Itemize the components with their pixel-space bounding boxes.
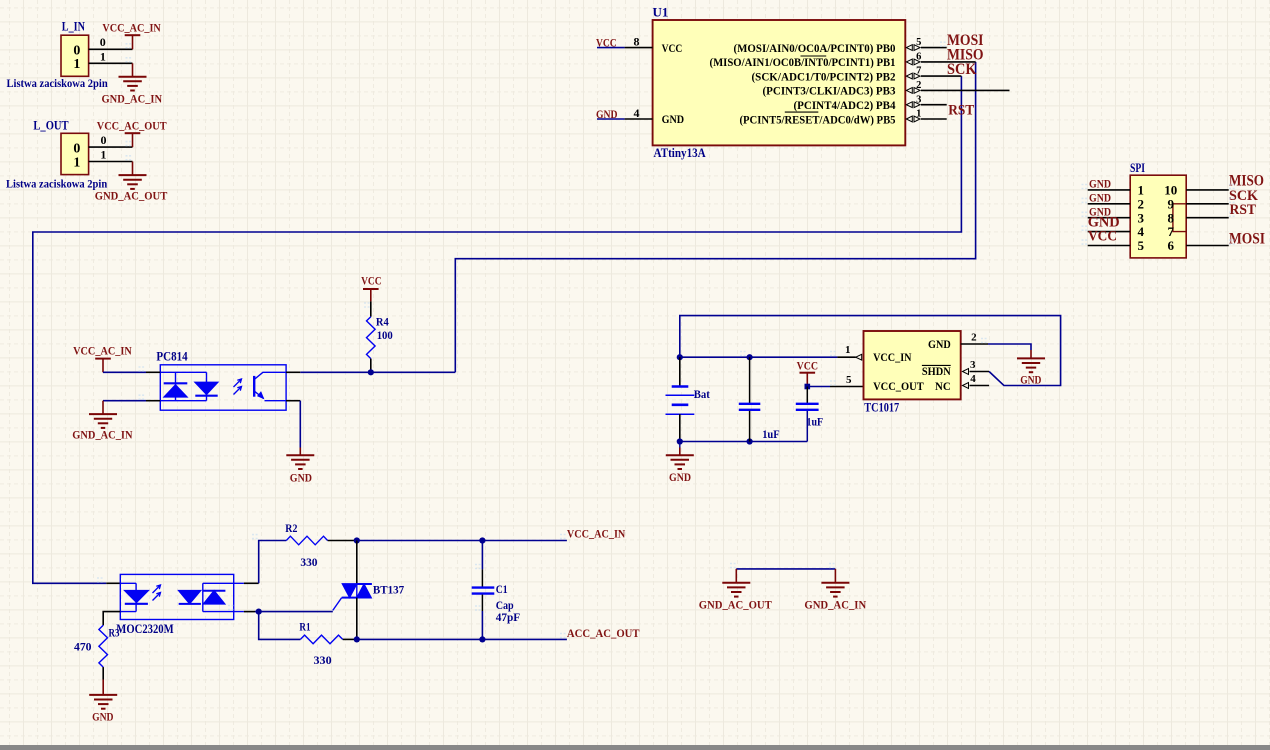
svg-text:0: 0: [73, 142, 80, 157]
svg-text:C1: C1: [496, 582, 508, 596]
L_IN pin 1 wire: [89, 62, 133, 64]
svg-text:BT137: BT137: [373, 582, 404, 596]
svg-text:330: 330: [314, 653, 332, 667]
battery Bat pin -: [679, 414, 681, 441]
wire MOC pin4 up to R2: [259, 541, 287, 584]
PC814 light arrows: [234, 379, 242, 395]
svg-text:PC814: PC814: [156, 349, 188, 363]
svg-text:GND: GND: [669, 470, 691, 484]
junction C1 bottom: [479, 636, 485, 642]
L_OUT pin 0 wire: [89, 146, 133, 148]
MOC2320M pin 1: [106, 582, 120, 584]
power port VCC bar at TC1017: [800, 372, 816, 374]
MOC2320M pin 3: [244, 611, 255, 613]
TC1017 pin 1 lead: [837, 356, 855, 358]
TC1017 pin 3 arrow: [963, 369, 969, 375]
wire C1 bottom: [481, 611, 483, 639]
svg-text:6: 6: [916, 52, 921, 63]
junction battery top: [677, 354, 683, 360]
U1 pin 5 IO arrows: [906, 45, 920, 51]
svg-text:(PCINT3/CLKI/ADC3) PB3: (PCINT3/CLKI/ADC3) PB3: [763, 84, 896, 98]
capacitor C3 pin 1: [806, 387, 808, 404]
TC1017 pin 1 arrow: [856, 354, 862, 360]
PC814 phototransistor: [254, 372, 286, 400]
power port VCC_AC_IN bar: [125, 34, 141, 36]
SPI pin 5 wire: [1088, 245, 1131, 247]
svg-text:3: 3: [1138, 210, 1145, 225]
U1 pin 2 IO arrows: [906, 88, 920, 94]
SPI pin 1 wire: [1088, 189, 1131, 191]
resistor R3 body: [99, 625, 108, 667]
power port VCC_AC_OUT bar: [125, 132, 141, 134]
R4 pin 1: [370, 301, 372, 316]
GND stem under battery: [679, 448, 681, 456]
svg-text:(MOSI/AIN0/OC0A/PCINT0) PB0: (MOSI/AIN0/OC0A/PCINT0) PB0: [734, 41, 896, 55]
U1 pin 4: [625, 118, 653, 120]
SPI pin 10 wire: [1186, 189, 1229, 191]
R3 pin 2: [102, 667, 104, 679]
SPI pin 2 wire: [1088, 203, 1131, 205]
wire SCK net: U1.PB2 to MOC input: [33, 76, 962, 583]
U1 pin 6 lead: [921, 61, 976, 63]
svg-text:2: 2: [916, 80, 921, 91]
GND stem at PC814 emitter: [299, 448, 301, 456]
svg-text:VCC_AC_IN: VCC_AC_IN: [102, 21, 161, 35]
svg-text:4: 4: [634, 106, 640, 120]
wire TC1017 GND to ground: [988, 344, 1031, 350]
wire to GND under battery: [679, 442, 681, 448]
power port VCC_AC_IN bar at PC814: [95, 358, 111, 360]
GND stem right of TC1017: [1030, 350, 1032, 358]
BT137 pin T1: [356, 598, 358, 640]
wire PC814 collector to R4/MISO: [300, 371, 455, 373]
wire between AC grounds: [736, 568, 835, 570]
wire to PC814 anode: [103, 371, 146, 373]
ground GND symbol under battery: [666, 455, 694, 469]
wire MOC pin3 to BT137 gate: [255, 611, 333, 613]
overline RESET: [785, 111, 819, 113]
svg-text:1: 1: [100, 49, 106, 63]
svg-text:5: 5: [846, 374, 852, 386]
U1 pin 1 IO arrows: [906, 116, 920, 122]
svg-text:SPI: SPI: [1130, 161, 1145, 175]
wire battery top loop to TC1017 SHDN: [680, 316, 1061, 386]
U1 pin 3 IO arrows: [906, 102, 920, 108]
PC814 pin 3: [286, 400, 300, 402]
svg-text:VCC: VCC: [1088, 229, 1117, 245]
svg-text:1: 1: [916, 109, 921, 120]
svg-text:0: 0: [73, 43, 80, 58]
svg-text:GND_AC_IN: GND_AC_IN: [102, 92, 163, 106]
svg-text:Listwa zaciskowa 2pin: Listwa zaciskowa 2pin: [6, 178, 108, 190]
resistor R2 body: [286, 536, 327, 545]
MOC2320M internal LED: [120, 583, 148, 611]
svg-text:9: 9: [1168, 196, 1175, 211]
ground GND_AC_IN symbol: [821, 583, 849, 597]
svg-text:4: 4: [970, 373, 976, 385]
capacitor C1 body: [472, 588, 495, 594]
svg-text:GND: GND: [1089, 193, 1111, 205]
connector SPI body: [1130, 175, 1186, 258]
svg-text:U1: U1: [653, 5, 669, 20]
battery Bat pin +: [679, 357, 681, 386]
junction R2/BT137 top: [354, 537, 360, 543]
GND_AC_OUT stem: [735, 569, 737, 583]
GND_AC_IN stem at PC814: [102, 401, 104, 414]
junction square at VCC_OUT: [805, 384, 811, 390]
SPI pin 8 wire: [1186, 217, 1229, 219]
capacitor C3 pin 2 wire: [806, 411, 808, 442]
capacitor C1 pin 1: [481, 569, 483, 586]
svg-text:(SCK/ADC1/T0/PCINT2) PB2: (SCK/ADC1/T0/PCINT2) PB2: [752, 69, 896, 83]
svg-text:GND_AC_OUT: GND_AC_OUT: [699, 598, 772, 612]
svg-text:VCC: VCC: [797, 358, 819, 372]
GND_AC_OUT stem: [132, 162, 134, 176]
junction MOC pin3: [256, 609, 262, 615]
capacitor C1 pin 2: [481, 595, 483, 611]
svg-text:ACC_AC_OUT: ACC_AC_OUT: [567, 626, 640, 640]
MOC2320M pin 2 wire: [103, 612, 120, 614]
svg-text:GND_AC_IN: GND_AC_IN: [804, 598, 866, 612]
PC814 internal back-to-back LEDs: [160, 372, 217, 400]
capacitor C2 body: [739, 404, 761, 410]
svg-text:VCC_IN: VCC_IN: [873, 350, 912, 364]
svg-text:10: 10: [1164, 183, 1177, 198]
SPI pin 4 wire: [1088, 231, 1131, 233]
VCC_AC_IN stem: [132, 35, 134, 49]
junction C1 top: [479, 537, 485, 543]
svg-text:VCC_AC_OUT: VCC_AC_OUT: [97, 119, 167, 133]
svg-text:R2: R2: [285, 521, 297, 535]
resistor R4 body: [367, 317, 376, 359]
svg-text:5: 5: [916, 37, 921, 48]
svg-text:1uF: 1uF: [807, 415, 824, 429]
svg-text:GND: GND: [92, 710, 114, 724]
L_IN pin 0 wire: [89, 48, 133, 50]
svg-text:Listwa zaciskowa 2pin: Listwa zaciskowa 2pin: [7, 78, 109, 90]
GND_AC_IN stem: [132, 63, 134, 76]
U1 pin 7 IO arrows: [906, 73, 920, 79]
TC1017 pin 2 lead: [961, 343, 988, 345]
VCC stem at TC1017: [806, 373, 808, 387]
capacitor C2 pin 1: [749, 357, 751, 403]
capacitor C2 pin 2: [749, 411, 751, 442]
junction battery bottom: [677, 438, 683, 444]
MOC2320M pin 4: [244, 582, 259, 584]
svg-text:100: 100: [377, 328, 393, 342]
TC1017 pin 4 lead: [970, 385, 990, 387]
capacitor C3 body: [796, 404, 819, 410]
wire to PC814 cathode: [103, 400, 146, 402]
overline SHDN: [922, 364, 951, 366]
ground GND_AC_IN symbol: [119, 77, 147, 91]
wire C1 top: [481, 541, 483, 570]
svg-text:L_IN: L_IN: [62, 18, 86, 33]
TC1017 pin 3 lead: [970, 371, 990, 373]
PC814 pin 4: [286, 371, 300, 373]
power port VCC bar at R4: [363, 288, 379, 290]
GND stem under R3: [102, 680, 104, 695]
svg-text:(MISO/AIN1/OC0B/INT0/PCINT1) P: (MISO/AIN1/OC0B/INT0/PCINT1) PB1: [710, 55, 896, 69]
TC1017 pin 4 arrow: [963, 383, 969, 389]
svg-text:NC: NC: [935, 379, 951, 393]
svg-text:1: 1: [845, 344, 851, 356]
U1 pin 2 lead: [921, 89, 1010, 91]
svg-text:VCC_AC_IN: VCC_AC_IN: [567, 527, 626, 541]
svg-text:GND: GND: [928, 337, 951, 351]
svg-text:ATtiny13A: ATtiny13A: [654, 145, 707, 160]
svg-text:(PCINT4/ADC2) PB4: (PCINT4/ADC2) PB4: [794, 98, 896, 112]
ground GND_AC_OUT symbol: [722, 583, 750, 597]
svg-text:Bat: Bat: [694, 387, 710, 401]
R3 pin 1: [102, 614, 104, 625]
junction at R4 bottom: [368, 369, 374, 375]
IC U1 body: [653, 20, 906, 145]
svg-text:MOC2320M: MOC2320M: [116, 622, 174, 636]
svg-text:4: 4: [1138, 224, 1145, 239]
svg-text:8: 8: [1168, 210, 1175, 225]
svg-text:VCC: VCC: [361, 273, 382, 287]
PC814 pin 2: [146, 400, 160, 402]
svg-text:6: 6: [1168, 238, 1175, 253]
svg-text:2: 2: [971, 331, 977, 343]
U1 pin 3 lead: [921, 104, 947, 106]
MOC2320M internal triac: [179, 583, 244, 611]
R1 pin 2 lead: [343, 638, 357, 640]
R2 pin 2 lead: [328, 540, 357, 542]
wire ACC_AC_OUT net bottom: [357, 638, 567, 640]
L_OUT pin 1 wire: [89, 161, 133, 163]
svg-text:RST: RST: [948, 102, 974, 118]
svg-text:VCC_OUT: VCC_OUT: [873, 379, 924, 393]
resistor R1 body: [300, 635, 342, 644]
optocoupler MOC2320M body outline: [120, 574, 233, 619]
ground GND symbol under R3: [89, 695, 117, 709]
wire PC814 emitter down: [299, 401, 301, 448]
svg-text:5: 5: [1138, 238, 1145, 253]
GND_AC_IN stem: [834, 569, 836, 583]
wire MISO net: U1.PB1 to PC814 collector: [455, 62, 975, 372]
MOC2320M light arrows: [153, 585, 161, 601]
svg-text:SHDN: SHDN: [922, 364, 951, 378]
svg-text:1: 1: [1138, 183, 1145, 198]
wire bottom rail: [680, 441, 808, 443]
svg-text:1: 1: [100, 147, 106, 161]
SPI internal strap pins 9-7: [1173, 204, 1186, 232]
svg-text:VCC_AC_IN: VCC_AC_IN: [73, 344, 132, 358]
svg-text:1: 1: [73, 156, 80, 171]
overline INT0: [801, 55, 827, 57]
wire VCC to U1.8: [597, 47, 625, 49]
svg-text:SCK: SCK: [947, 61, 977, 78]
wire VCC_OUT: [807, 386, 830, 388]
svg-text:RST: RST: [1230, 202, 1257, 218]
svg-text:GND: GND: [1020, 373, 1041, 387]
U1 pin 5 lead: [921, 47, 947, 49]
U1 pin 8: [625, 47, 653, 49]
wire VCC_IN rail: [680, 356, 838, 358]
svg-text:0: 0: [101, 133, 107, 147]
svg-text:GND: GND: [1089, 179, 1111, 191]
regulator TC1017 body: [864, 331, 961, 399]
svg-text:GND_AC_OUT: GND_AC_OUT: [95, 189, 168, 203]
PC814 pin 1: [146, 371, 160, 373]
svg-text:GND: GND: [662, 112, 685, 126]
svg-text:TC1017: TC1017: [864, 400, 899, 414]
svg-text:3: 3: [970, 359, 976, 371]
U1 pin 6 IO arrows: [906, 59, 920, 65]
connector L_OUT body: [61, 133, 89, 174]
VCC_AC_IN stem at PC814: [102, 359, 104, 373]
svg-text:R4: R4: [376, 315, 389, 329]
SPI pin 6 wire: [1186, 245, 1229, 247]
junction C2 bottom: [747, 438, 753, 444]
svg-text:GND: GND: [290, 470, 312, 484]
junction R1/BT137 bottom: [354, 636, 360, 642]
svg-text:470: 470: [74, 640, 92, 654]
svg-text:7: 7: [1168, 224, 1175, 239]
U1 pin 7 lead: [921, 75, 962, 77]
svg-text:L_OUT: L_OUT: [33, 118, 68, 133]
ground GND_AC_IN symbol at PC814: [89, 414, 117, 428]
svg-text:1: 1: [73, 57, 80, 72]
svg-text:VCC: VCC: [662, 41, 683, 55]
svg-text:GND_AC_IN: GND_AC_IN: [72, 428, 132, 442]
svg-text:7: 7: [916, 66, 921, 77]
svg-text:1uF: 1uF: [762, 427, 780, 441]
wire down to R1: [259, 612, 301, 640]
VCC_AC_OUT stem: [132, 133, 134, 147]
optocoupler PC814 body outline: [160, 365, 286, 410]
connector L_IN body: [61, 35, 89, 76]
battery Bat body: [666, 387, 695, 415]
SPI pin 9 wire: [1186, 203, 1229, 205]
svg-text:3: 3: [916, 94, 921, 105]
wire GND to U1.4: [597, 118, 625, 120]
ground GND_AC_OUT symbol: [119, 175, 147, 189]
TC1017 pin 5: [830, 386, 864, 388]
junction C2 top: [747, 354, 753, 360]
wire VCC_AC_IN net top: [357, 540, 567, 542]
ground GND symbol right of TC1017: [1017, 358, 1045, 372]
svg-text:330: 330: [300, 555, 317, 569]
svg-text:47pF: 47pF: [496, 610, 521, 624]
U1 pin 1 lead: [921, 118, 947, 120]
R4 pin 2: [370, 359, 372, 372]
svg-text:R1: R1: [299, 620, 310, 634]
svg-text:(PCINT5/RESET/ADC0/dW) PB5: (PCINT5/RESET/ADC0/dW) PB5: [740, 112, 896, 126]
BT137 pin T2: [356, 541, 358, 585]
SPI pin 3 wire: [1088, 217, 1131, 219]
VCC stem at R4: [370, 289, 372, 301]
svg-text:0: 0: [100, 35, 106, 49]
svg-text:2: 2: [1138, 196, 1145, 211]
triac BT137 body: [333, 584, 372, 611]
ground GND symbol at PC814 emitter: [286, 455, 314, 469]
svg-text:8: 8: [634, 34, 640, 48]
